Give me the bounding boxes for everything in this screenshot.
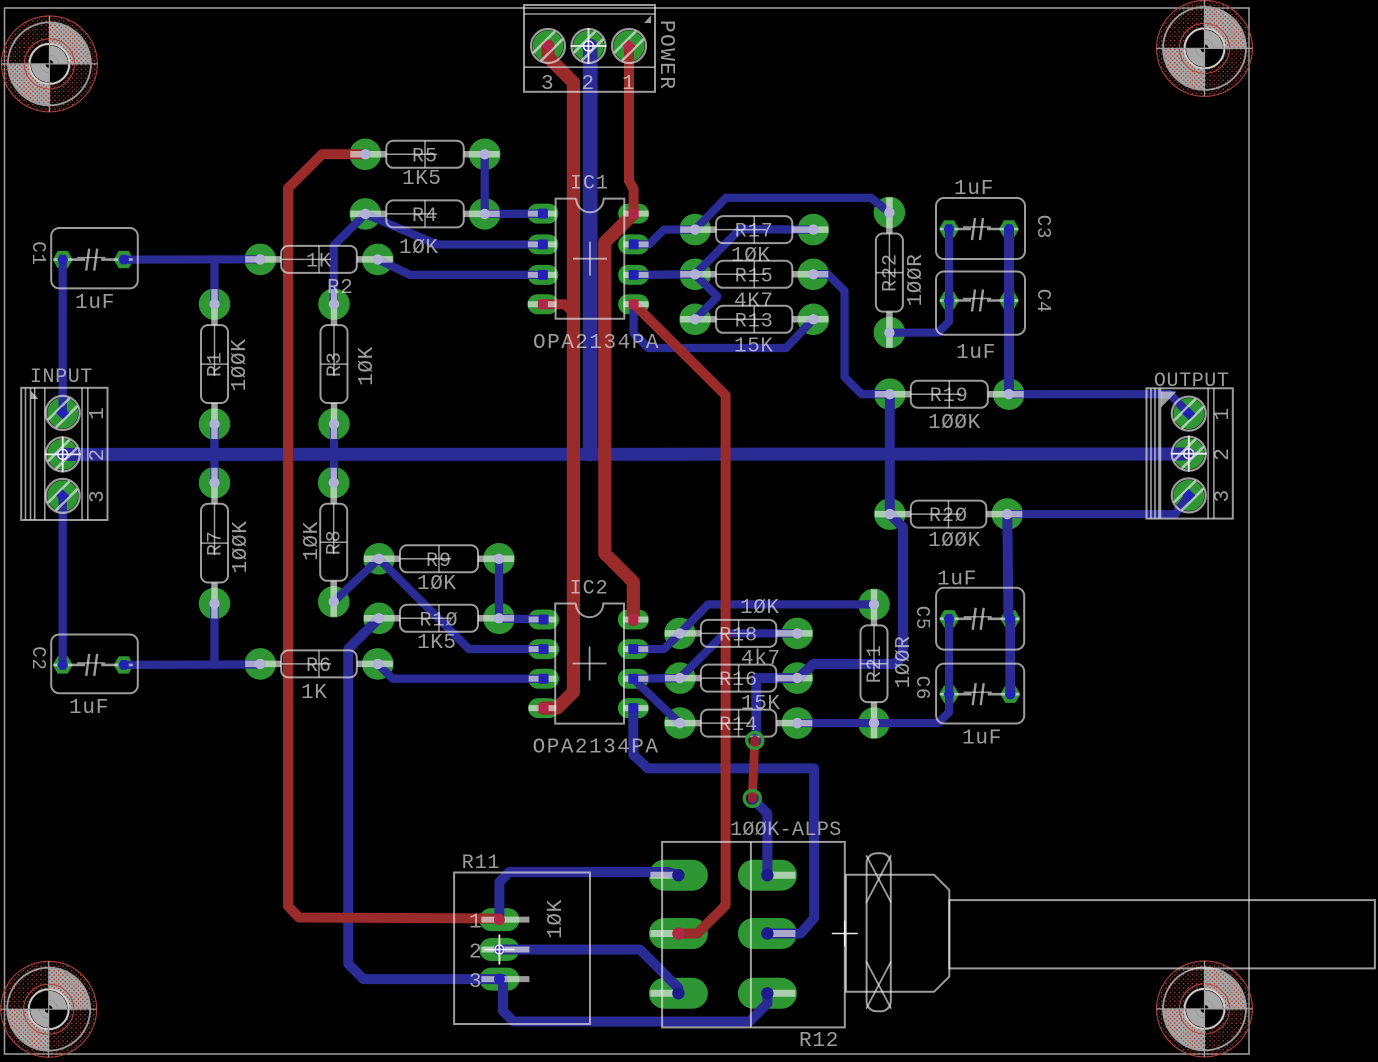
- capacitor C3 pads: [939, 220, 1019, 237]
- wire C1 to INPUT-1: [59, 260, 67, 413]
- resistor R20 100K: [875, 501, 1023, 553]
- svg-text:R11: R11: [462, 852, 500, 875]
- svg-text:2: 2: [469, 942, 483, 965]
- svg-text:1uF: 1uF: [75, 292, 115, 315]
- svg-text:1K: 1K: [301, 682, 327, 705]
- wire C1 to R2: [124, 255, 261, 264]
- wire IC1 pin5 to R13 right: [634, 304, 814, 348]
- svg-text:R21: R21: [864, 644, 887, 683]
- connector POWER silk: [524, 5, 677, 96]
- svg-text:R22: R22: [879, 253, 902, 292]
- potentiometer R12 silk: [650, 819, 1375, 1053]
- connector OUTPUT pads: [1173, 398, 1204, 511]
- red wire POWER-1 to IC1 pin8: [629, 46, 634, 214]
- wire IC2 pin6 to R14 left: [633, 679, 680, 723]
- svg-text:15K: 15K: [734, 336, 774, 359]
- svg-text:1: 1: [469, 912, 483, 935]
- wire R15 left to R13 left: [695, 274, 717, 319]
- capacitor C2 pads: [53, 656, 134, 673]
- svg-text:1ØK: 1ØK: [301, 521, 324, 561]
- svg-text:INPUT: INPUT: [30, 366, 93, 389]
- svg-text:R9: R9: [426, 550, 452, 573]
- svg-text:R17: R17: [735, 221, 774, 244]
- resistor R5 pads: [350, 139, 501, 171]
- mounting hole bottom-left: [1, 961, 97, 1057]
- svg-text:R16: R16: [719, 669, 758, 692]
- wire R15 left to R17 right: [695, 229, 813, 274]
- mounting hole bottom-right: [1157, 961, 1253, 1057]
- wire R6 right to IC2 pin3: [378, 664, 544, 679]
- svg-text:1ØK: 1ØK: [356, 346, 379, 386]
- resistor R2 pads: [244, 244, 393, 276]
- svg-text:1ØØK: 1ØØK: [230, 521, 253, 574]
- wire R10 right to IC2 pin1: [499, 618, 544, 619]
- svg-text:1ØØR: 1ØØR: [905, 254, 928, 307]
- resistor R13 15K: [680, 306, 828, 359]
- trimmer R11 pads: [479, 908, 519, 991]
- resistor R10 pads: [363, 603, 515, 635]
- resistor R14 pads: [664, 707, 813, 739]
- resistor R1 100K: [201, 289, 252, 439]
- resistor R9 10K: [364, 545, 514, 596]
- svg-text:IC2: IC2: [570, 578, 609, 601]
- resistor R19 pads: [874, 378, 1025, 410]
- capacitor C1 pads: [53, 251, 134, 268]
- wire R18 left to IC2 pin7: [633, 633, 680, 649]
- wire R4 left to IC1 pin2: [365, 214, 543, 245]
- svg-text:R8: R8: [324, 529, 347, 555]
- wire R3 bottom to R8 top: [330, 424, 338, 483]
- resistor R18 10K: [665, 597, 812, 647]
- svg-text:1K5: 1K5: [417, 632, 457, 655]
- red wire via V1 to via V2: [752, 740, 755, 798]
- wire C5 right to C6 right: [1005, 619, 1015, 694]
- svg-text:1: 1: [87, 407, 110, 420]
- wire R16 left to IC2 pin6: [633, 674, 680, 683]
- svg-text:3: 3: [469, 971, 483, 994]
- svg-text:1uF: 1uF: [962, 728, 1002, 751]
- svg-text:R12: R12: [799, 1030, 839, 1053]
- wire IC2 pin5 to R12 mid-right: [633, 708, 814, 933]
- resistor R3 10K: [321, 289, 380, 439]
- resistor R6 1K: [245, 650, 393, 705]
- resistor R9 pads: [363, 543, 515, 575]
- svg-text:R7: R7: [205, 530, 228, 556]
- capacitor C5 pads: [939, 610, 1020, 627]
- resistor R22 100R: [876, 198, 928, 348]
- connector POWER pads: [533, 31, 645, 62]
- capacitor C3 1uF: [936, 178, 1054, 259]
- svg-text:R13: R13: [735, 310, 774, 333]
- svg-text:1: 1: [1212, 408, 1235, 421]
- svg-text:15K: 15K: [741, 693, 781, 716]
- svg-text:OUTPUT: OUTPUT: [1154, 370, 1230, 393]
- label R2: [327, 277, 353, 300]
- svg-text:4k7: 4k7: [741, 648, 781, 671]
- resistor R20 pads: [874, 498, 1023, 530]
- svg-text:R2Ø: R2Ø: [929, 505, 968, 528]
- resistor R16 pads: [664, 662, 813, 694]
- trimmer R11 silk: [454, 852, 590, 1024]
- svg-text:R4: R4: [412, 205, 438, 228]
- svg-text:3: 3: [87, 490, 110, 503]
- capacitor C2 1uF: [27, 635, 138, 721]
- potentiometer R12 pads: [649, 860, 797, 1009]
- resistor R13 pads: [679, 304, 829, 336]
- capacitor C4 1uF: [936, 272, 1054, 366]
- wire R1 bottom to R7 top: [210, 424, 218, 483]
- op-amp IC1 OPA2134PA: [528, 173, 660, 355]
- resistor R8 10K: [301, 468, 347, 617]
- resistor R4 10K: [350, 200, 499, 260]
- resistor R15 pads: [679, 259, 829, 291]
- connector INPUT silk: [21, 366, 110, 520]
- resistor R17 10K: [680, 216, 828, 268]
- wire R4 left to R3 top: [334, 214, 366, 304]
- resistor R6 pads: [244, 648, 393, 680]
- resistor R1 pads: [199, 288, 231, 440]
- via V2: [744, 790, 760, 806]
- wire C2 to R6 left: [124, 660, 261, 669]
- resistor R16 4k7: [665, 648, 812, 692]
- op-amp IC2 OPA2134PA: [529, 578, 660, 760]
- resistor R3 pads: [318, 288, 350, 440]
- svg-text:C3: C3: [1032, 215, 1054, 239]
- resistor R7 100K: [201, 468, 253, 619]
- resistor R18 pads: [664, 618, 813, 650]
- wire R20 right to C5 right: [1007, 514, 1008, 619]
- svg-text:2: 2: [582, 73, 595, 96]
- svg-text:C4: C4: [1032, 289, 1054, 313]
- svg-text:R1Ø: R1Ø: [419, 609, 458, 632]
- wire POWER-2 to GND bus: [583, 46, 598, 454]
- mounting hole top-right: [1157, 0, 1253, 96]
- wire R19 left to R20 left: [885, 394, 895, 514]
- wire IC1 pin7 to R17 left: [634, 230, 696, 245]
- svg-text:OPA2134PA: OPA2134PA: [533, 737, 660, 760]
- svg-text:C1: C1: [27, 241, 49, 265]
- svg-text:1uF: 1uF: [956, 342, 996, 365]
- resistor R22 pads: [874, 197, 906, 349]
- svg-text:R5: R5: [412, 145, 438, 168]
- resistor R8 pads: [318, 467, 350, 618]
- svg-text:1ØK: 1ØK: [740, 597, 780, 620]
- resistor R5 1K5: [350, 141, 499, 191]
- wire R2 right to IC1 pin3: [378, 259, 543, 275]
- resistor R7 pads: [199, 467, 231, 619]
- svg-text:IC1: IC1: [570, 173, 609, 196]
- resistor R21 100R: [861, 589, 917, 738]
- svg-text:1K: 1K: [306, 250, 332, 273]
- wire R9 right to R10 right: [495, 559, 503, 619]
- svg-text:C5: C5: [911, 606, 933, 630]
- via V1: [747, 732, 763, 748]
- svg-text:1ØØK-ALPS: 1ØØK-ALPS: [730, 819, 842, 842]
- resistor R19 100K: [875, 381, 1024, 435]
- svg-text:R6: R6: [306, 655, 332, 678]
- svg-text:C6: C6: [911, 676, 933, 700]
- svg-text:1ØØK: 1ØØK: [229, 339, 252, 392]
- red wire IC1 pin5 to R12 mid-left: [634, 304, 725, 933]
- svg-text:R18: R18: [719, 624, 758, 647]
- resistor R4 pads: [350, 198, 501, 230]
- resistor R15 4K7: [680, 261, 828, 314]
- wire R11 pin2 to R12 bottom-left: [499, 950, 678, 994]
- wire R9 left to IC2 pin2: [379, 559, 544, 649]
- svg-text:POWER: POWER: [654, 20, 677, 91]
- resistor R2 1K: [245, 246, 393, 274]
- connector OUTPUT silk: [1147, 370, 1236, 519]
- svg-text:1ØØK: 1ØØK: [928, 530, 981, 553]
- svg-text:C2: C2: [27, 646, 49, 670]
- svg-text:1: 1: [622, 73, 635, 96]
- wire C3 right to R19 right: [1004, 229, 1014, 394]
- wire R18 right to R16 left: [680, 633, 797, 678]
- wire INPUT-3 to C2: [59, 496, 67, 665]
- wire R9 left to R8 bottom: [334, 559, 379, 602]
- wire R7 bottom to C2 net: [210, 604, 218, 665]
- svg-text:3: 3: [1212, 490, 1235, 503]
- wire R11 pin3 to R12 bottom-right: [503, 979, 767, 1021]
- svg-text:1ØK: 1ØK: [417, 573, 457, 596]
- wire R22 bottom to C3 left: [889, 229, 949, 333]
- resistor R10 1K5: [364, 605, 514, 655]
- wire R15 right to R19 left: [813, 274, 890, 394]
- svg-text:R1: R1: [205, 351, 228, 377]
- svg-text:R19: R19: [930, 385, 969, 408]
- wire GND bus INPUT-2 to OUTPUT-2: [63, 448, 1189, 461]
- wire R5 right to R4 right: [481, 154, 489, 214]
- wire R20 left to R16 right: [799, 514, 904, 678]
- wire R11 pin1 to R12 top-left: [499, 872, 678, 920]
- wire via V2 to R12 top-right: [752, 798, 767, 875]
- wire C5 left to C6 left: [945, 619, 953, 694]
- svg-text:R3: R3: [324, 351, 347, 377]
- capacitor C6 pads: [939, 686, 1020, 703]
- resistor R21 pads: [858, 589, 890, 739]
- resistor R17 pads: [679, 214, 829, 246]
- capacitor C1 1uF: [27, 228, 138, 315]
- svg-text:1uF: 1uF: [69, 697, 109, 720]
- capacitor C5 1uF: [911, 569, 1024, 650]
- wire IC1 pin6 to R15 left: [634, 270, 696, 279]
- wire R16 right to via V1: [756, 678, 798, 740]
- svg-text:2: 2: [87, 449, 110, 462]
- svg-text:1uF: 1uF: [937, 569, 977, 592]
- svg-text:R15: R15: [735, 265, 774, 288]
- capacitor C6 1uF: [911, 664, 1024, 751]
- resistor R14 15K: [665, 693, 812, 737]
- op-amp IC2 pads: [528, 610, 649, 719]
- capacitor C4 pads: [939, 292, 1019, 309]
- wire R10 left to R11 pin3: [348, 618, 499, 979]
- svg-text:1K5: 1K5: [402, 168, 442, 191]
- op-amp IC1 pads: [527, 204, 649, 315]
- svg-text:3: 3: [541, 73, 554, 96]
- red wire POWER-3 to IC2 pin4 V-: [544, 46, 574, 708]
- red wire R5 left to R11 pin1: [288, 154, 499, 918]
- wire R19 right to OUTPUT-1: [1009, 394, 1189, 413]
- red wire IC1 pin8 to IC2 pin8 V+: [605, 214, 634, 620]
- wire R4 right to IC1 pin1: [485, 210, 543, 218]
- red stub IC1 pin4: [543, 304, 574, 312]
- wire R14 right to R21 bottom to C6 left: [797, 694, 949, 723]
- svg-text:1uF: 1uF: [954, 178, 994, 201]
- wire R17 left to R22 top: [695, 198, 889, 230]
- mounting hole top-left: [1, 16, 97, 112]
- wire R20 right to OUTPUT-3: [1007, 495, 1189, 514]
- wire R21 top to R18 left: [680, 604, 874, 633]
- svg-text:1ØK: 1ØK: [399, 237, 439, 260]
- svg-text:OPA2134PA: OPA2134PA: [533, 332, 660, 355]
- svg-text:1ØØK: 1ØØK: [928, 412, 981, 435]
- wire node to R1 top: [210, 260, 218, 305]
- svg-text:1ØK: 1ØK: [545, 899, 568, 939]
- connector INPUT pads: [47, 397, 78, 511]
- svg-text:2: 2: [1212, 448, 1235, 461]
